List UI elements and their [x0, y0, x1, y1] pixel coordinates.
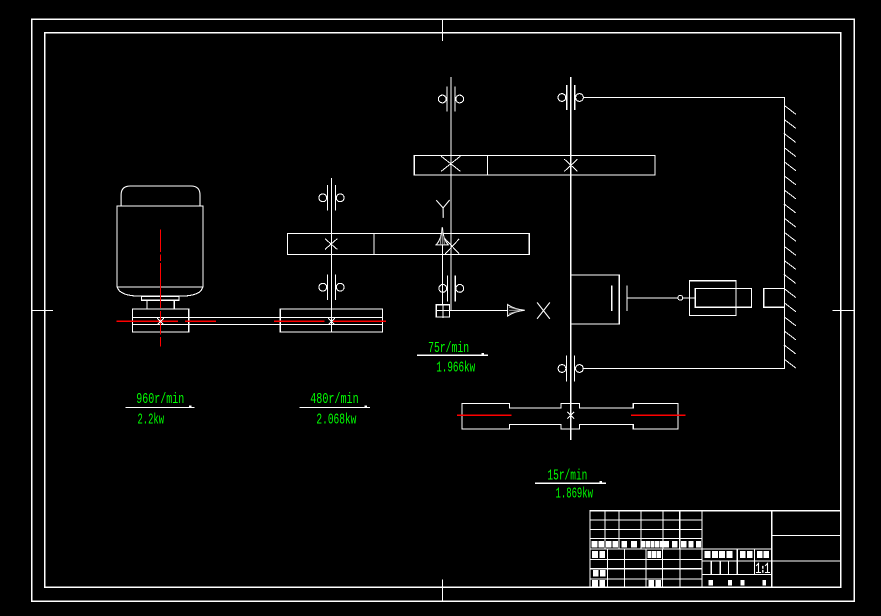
Y axis line [442, 245, 444, 305]
center cross mark pulley P2 [329, 318, 335, 324]
cylinder block at wall [764, 289, 785, 308]
svg-text:480r/min: 480r/min [310, 392, 359, 408]
centering tick left [32, 310, 53, 312]
slider plate left [611, 286, 613, 310]
title block header row text blobs [592, 541, 702, 548]
bearing shaft III upper [438, 87, 463, 111]
link line bearing IV to wall top [583, 97, 784, 99]
motor M top cap [121, 186, 200, 206]
motor M neck [147, 300, 174, 309]
bearing shaft II upper [319, 186, 344, 211]
motor M bottom dome [117, 287, 202, 296]
svg-text:2.2kw: 2.2kw [138, 412, 165, 428]
shaft III [450, 78, 452, 311]
centering tick top [442, 19, 444, 40]
title block row2 text blobs (design / std) [592, 551, 661, 558]
centering tick right [833, 310, 854, 312]
centerline pulleys horizontal red [117, 320, 386, 322]
crank U frame on shaft IV [571, 275, 620, 324]
gear mark X shaft II [325, 239, 337, 249]
motor M flange [142, 296, 180, 300]
roller red centerline right [632, 414, 685, 416]
belt upper line [132, 317, 382, 319]
gear mark X shaft III upper [442, 157, 461, 172]
gear box II-III divider [373, 234, 375, 255]
svg-text:1.966kw: 1.966kw [436, 360, 475, 376]
coordinate X label [537, 303, 549, 319]
title block row4 text blobs (check) [593, 570, 606, 576]
gear box III-IV divider [487, 155, 489, 175]
center cross mark pulley P1 [158, 318, 164, 324]
label underline 15 [535, 482, 605, 484]
Y axis arrowhead triangle [435, 228, 449, 245]
gear box shafts III-IV [414, 155, 655, 175]
title block sheet row blobs [708, 580, 766, 586]
centerline shaft I vertical red [160, 230, 162, 346]
gear box shafts II-III [287, 234, 529, 255]
svg-text:15r/min: 15r/min [547, 469, 587, 485]
link line bearing IV lower to wall bottom [583, 368, 784, 370]
label underline 75 [417, 354, 487, 356]
belt lower line [132, 324, 382, 326]
title block grid [590, 511, 841, 588]
wall fixed frame line [783, 98, 785, 369]
label underline 960 [126, 407, 194, 409]
X axis arrowhead triangle [508, 304, 525, 316]
bearing shaft IV upper [558, 86, 583, 110]
gear mark X shaft IV upper [565, 160, 578, 172]
svg-text:2.068kw: 2.068kw [316, 412, 356, 428]
wall hatch strokes [784, 106, 795, 368]
title block row5 text blobs (process / part) [592, 580, 661, 586]
shaft IV [570, 78, 572, 440]
motor M body [117, 206, 203, 287]
origin square [436, 305, 449, 317]
coordinate Y label [437, 200, 450, 217]
center cross mark roller [568, 412, 574, 418]
roller stepped silhouette [462, 403, 678, 429]
label underline 480 [300, 407, 369, 409]
slider plate right [626, 286, 628, 310]
shaft II [331, 178, 333, 332]
pulley P1 on motor shaft [132, 309, 188, 332]
svg-text:960r/min: 960r/min [136, 392, 184, 408]
piston inner block [695, 289, 751, 308]
pulley P2 on shaft II [280, 309, 382, 332]
title block stage mark row blobs [705, 551, 769, 558]
connecting rod line [627, 297, 695, 299]
bearing shaft IV lower [558, 356, 583, 381]
bearing shaft III lower [439, 276, 464, 301]
piston outer block [690, 281, 736, 316]
roller red centerline left [458, 414, 511, 416]
X axis line [450, 309, 508, 311]
title block scale value 1:1 [757, 564, 770, 573]
svg-text:1.869kw: 1.869kw [556, 487, 594, 503]
gear mark X shaft III lower [446, 239, 459, 253]
pin joint circle [678, 295, 683, 300]
centering tick bottom [442, 580, 444, 601]
svg-text:75r/min: 75r/min [428, 341, 469, 357]
bearing shaft II lower [319, 275, 344, 300]
